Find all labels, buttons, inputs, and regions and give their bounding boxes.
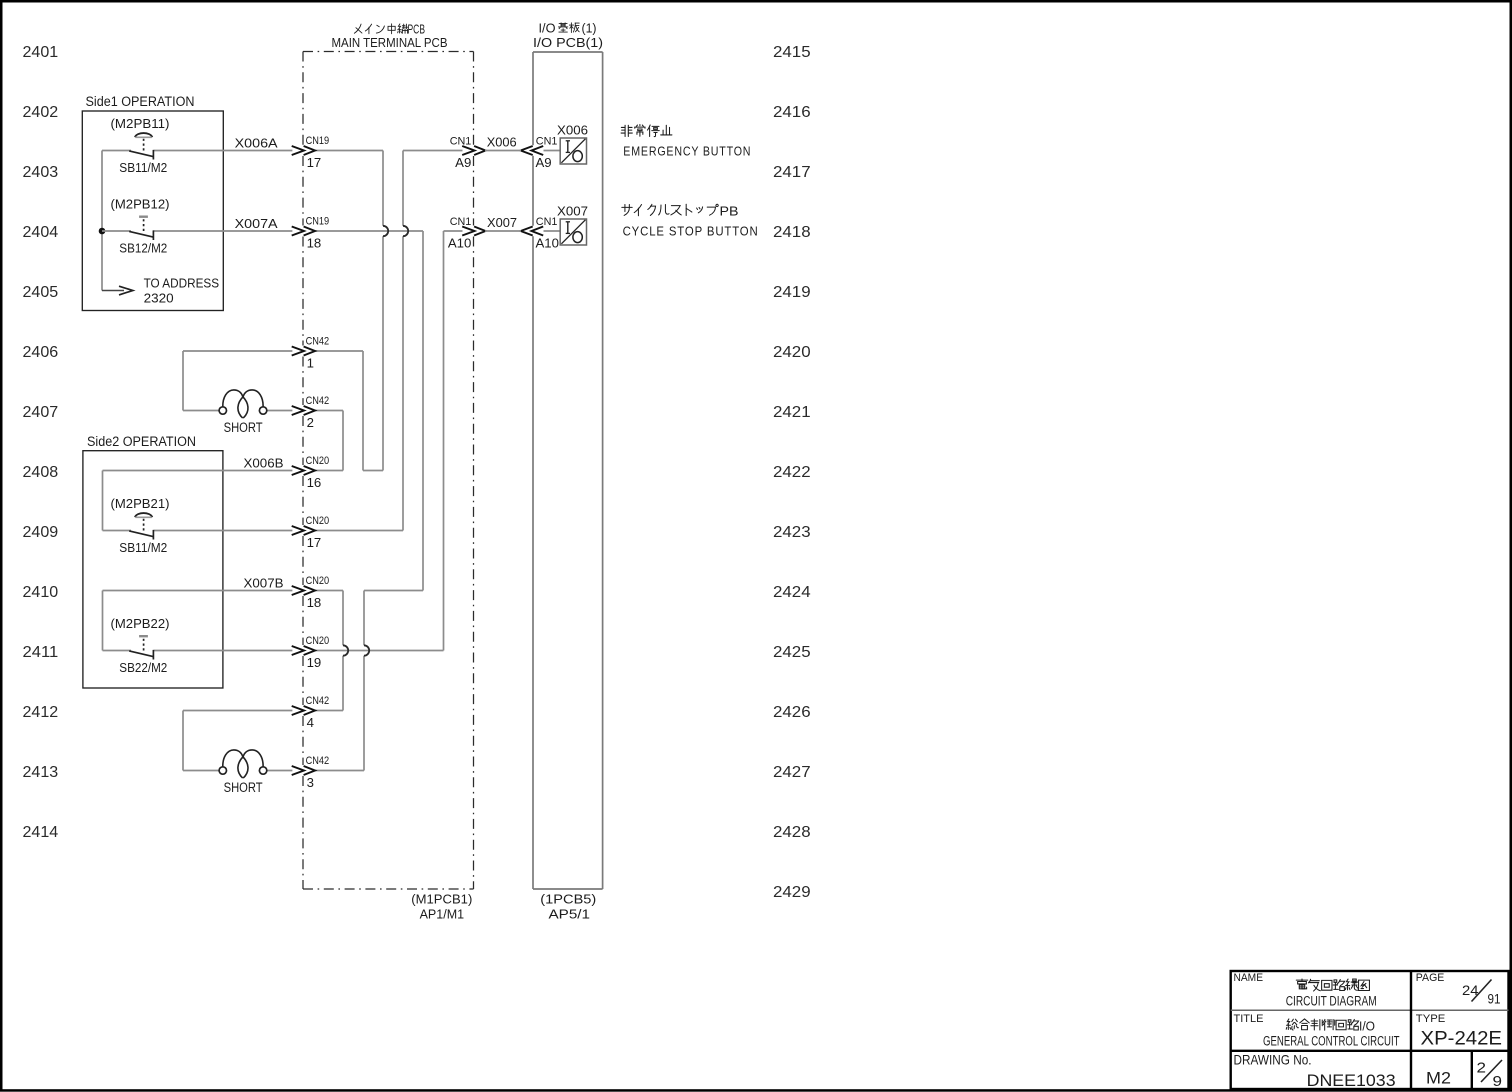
- svg-text:CN1: CN1: [450, 216, 472, 228]
- wire X007 between PCBs: [485, 230, 521, 232]
- svg-text:2: 2: [307, 415, 314, 430]
- svg-text:1: 1: [307, 355, 314, 370]
- svg-text:2420: 2420: [773, 344, 811, 361]
- svg-text:MAIN TERMINAL PCB: MAIN TERMINAL PCB: [332, 35, 448, 50]
- SHORT jumper: [219, 750, 267, 795]
- wire hop (no connection): [343, 645, 348, 655]
- svg-text:2412: 2412: [23, 704, 59, 721]
- wire Side2 upper vertical: [102, 471, 104, 531]
- wire Side2 lower vertical: [102, 591, 104, 651]
- svg-text:2418: 2418: [773, 224, 811, 241]
- svg-text:GENERAL CONTROL CIRCUIT: GENERAL CONTROL CIRCUIT: [1263, 1034, 1400, 1050]
- svg-text:PB: PB: [720, 205, 739, 219]
- svg-text:TYPE: TYPE: [1416, 1013, 1446, 1025]
- svg-text:18: 18: [307, 595, 322, 610]
- wire hop (no connection): [364, 645, 369, 655]
- svg-text:2401: 2401: [23, 44, 59, 61]
- I/O input symbol X007: [557, 203, 588, 245]
- wire X006 between PCBs: [485, 150, 521, 152]
- svg-text:DRAWING No.: DRAWING No.: [1234, 1053, 1312, 1068]
- connector CN1 pin A9: [521, 135, 558, 170]
- svg-text:CN20: CN20: [306, 635, 330, 647]
- I/O PCB(1) boundary box: [533, 52, 603, 889]
- svg-text:2426: 2426: [773, 704, 811, 721]
- svg-text:(1PCB5): (1PCB5): [540, 892, 596, 907]
- svg-text:CN19: CN19: [306, 135, 330, 147]
- svg-text:SB11/M2: SB11/M2: [119, 540, 167, 555]
- svg-text:XP-242E: XP-242E: [1421, 1027, 1503, 1049]
- connector CN42 pin 2: [292, 395, 330, 430]
- svg-text:X006B: X006B: [244, 455, 284, 470]
- svg-text:(M2PB12): (M2PB12): [111, 197, 170, 212]
- svg-text:I/O: I/O: [539, 21, 556, 36]
- svg-text:4: 4: [307, 715, 314, 730]
- svg-text:2425: 2425: [773, 644, 811, 661]
- connector CN20 pin 18: [292, 575, 330, 610]
- svg-text:19: 19: [307, 655, 322, 670]
- wire Side1 left vertical: [101, 151, 103, 291]
- wire SB11/M2 side2: [103, 530, 132, 532]
- label emergency button (Japanese): [621, 124, 672, 136]
- svg-text:X007A: X007A: [235, 216, 278, 231]
- svg-text:A10: A10: [448, 236, 471, 251]
- svg-text:2402: 2402: [23, 104, 59, 121]
- svg-text:2417: 2417: [773, 164, 811, 181]
- wire X006A: [102, 150, 131, 152]
- svg-text:SB12/M2: SB12/M2: [119, 241, 167, 256]
- svg-text:2320: 2320: [144, 291, 174, 306]
- title block PAGE cell: [1416, 972, 1501, 1006]
- connector CN1 pin A10: [521, 216, 559, 251]
- svg-text:X006A: X006A: [235, 136, 278, 151]
- svg-text:PAGE: PAGE: [1416, 972, 1445, 984]
- connector CN20 pin 19: [292, 635, 330, 670]
- svg-text:M2: M2: [1426, 1069, 1451, 1088]
- wire CN20-18 to CN42-4 route: [315, 591, 343, 711]
- svg-text:2406: 2406: [23, 344, 59, 361]
- push button SB11/M2 (M2PB11): [111, 116, 170, 175]
- svg-text:A9: A9: [455, 155, 471, 170]
- svg-text:CN19: CN19: [306, 216, 330, 228]
- connector CN20 pin 17: [292, 515, 330, 550]
- wire to X006 input: [544, 150, 561, 152]
- svg-text:2: 2: [1477, 1060, 1487, 1077]
- push button SB22/M2 (M2PB22): [111, 616, 170, 675]
- svg-text:(M2PB11): (M2PB11): [111, 116, 170, 131]
- wire X006B: [103, 470, 293, 472]
- svg-text:17: 17: [307, 535, 322, 550]
- svg-text:SB11/M2: SB11/M2: [119, 160, 167, 175]
- svg-text:EMERGENCY BUTTON: EMERGENCY BUTTON: [623, 143, 751, 158]
- svg-text:2427: 2427: [773, 764, 811, 781]
- label cycle stop PB (Japanese): [622, 204, 739, 218]
- svg-text:(M2PB22): (M2PB22): [111, 616, 170, 631]
- svg-text:2423: 2423: [773, 524, 811, 541]
- push button SB11/M2 (M2PB21): [111, 496, 170, 555]
- title block NAME cell: [1234, 972, 1377, 1009]
- wire X007B: [103, 590, 293, 592]
- title block table: [1231, 971, 1509, 1089]
- svg-text:3: 3: [307, 775, 314, 790]
- svg-text:2428: 2428: [773, 824, 811, 841]
- junction node: [99, 228, 106, 235]
- svg-text:(1): (1): [582, 21, 597, 36]
- push button SB12/M2 (M2PB12): [111, 197, 170, 256]
- title block TYPE cell: [1416, 1013, 1502, 1049]
- svg-text:TITLE: TITLE: [1234, 1013, 1264, 1025]
- svg-text:CN42: CN42: [306, 336, 330, 348]
- MAIN TERMINAL PCB boundary (dash-dot box): [303, 52, 474, 890]
- svg-text:2424: 2424: [773, 584, 811, 601]
- svg-text:DNEE1033: DNEE1033: [1307, 1071, 1396, 1090]
- connector CN19 pin 17: [292, 135, 330, 170]
- svg-text:2410: 2410: [23, 584, 59, 601]
- svg-text:CN1: CN1: [536, 135, 558, 147]
- svg-text:2408: 2408: [23, 464, 59, 481]
- svg-text:2414: 2414: [23, 824, 59, 841]
- title block TITLE cell: [1234, 1013, 1400, 1050]
- svg-text:X007: X007: [487, 215, 517, 230]
- wire CN20-19 to CN1-A10 route: [315, 231, 443, 651]
- wire CN42-2 to CN20-16 route: [315, 411, 343, 471]
- connector CN19 pin 18: [292, 216, 330, 251]
- Side1 OPERATION box: [82, 94, 223, 311]
- svg-text:2415: 2415: [773, 44, 811, 61]
- svg-text:TO ADDRESS: TO ADDRESS: [144, 275, 220, 290]
- svg-text:SB22/M2: SB22/M2: [119, 660, 167, 675]
- title block page 2/9 cell: [1477, 1060, 1503, 1090]
- svg-text:CN1: CN1: [536, 216, 558, 228]
- SHORT jumper: [219, 390, 267, 435]
- svg-text:2416: 2416: [773, 104, 811, 121]
- svg-text:2413: 2413: [23, 764, 59, 781]
- svg-text:X006: X006: [487, 134, 517, 149]
- wire X007A: [102, 230, 131, 232]
- svg-text:SHORT: SHORT: [224, 420, 263, 435]
- TO ADDRESS arrow: [102, 275, 219, 305]
- wire CN42-1 loop: [183, 351, 292, 411]
- svg-text:18: 18: [307, 235, 322, 250]
- svg-text:A9: A9: [536, 155, 552, 170]
- svg-text:(M1PCB1): (M1PCB1): [411, 892, 472, 907]
- I/O input symbol X006: [557, 122, 588, 164]
- svg-text:I/O: I/O: [1359, 1020, 1375, 1034]
- svg-text:I/O PCB(1): I/O PCB(1): [533, 35, 603, 50]
- connector CN20 pin 16: [292, 455, 330, 490]
- svg-text:NAME: NAME: [1234, 972, 1264, 984]
- svg-text:Side1 OPERATION: Side1 OPERATION: [86, 94, 195, 109]
- svg-text:X007: X007: [557, 203, 588, 218]
- svg-text:CN20: CN20: [306, 515, 330, 527]
- svg-text:Side2 OPERATION: Side2 OPERATION: [87, 434, 196, 449]
- wire CN20-17 to CN1-A9 route: [315, 151, 462, 531]
- wire to X007 input: [544, 230, 561, 232]
- svg-text:CN42: CN42: [306, 395, 330, 407]
- svg-text:CN20: CN20: [306, 575, 330, 587]
- svg-text:X006: X006: [557, 122, 588, 137]
- label I/O PCB(1): [533, 21, 603, 51]
- svg-text:CN42: CN42: [306, 755, 330, 767]
- svg-text:2429: 2429: [773, 884, 811, 901]
- wire hop (no connection): [403, 226, 408, 236]
- svg-text:17: 17: [307, 155, 322, 170]
- svg-text:AP1/M1: AP1/M1: [420, 907, 465, 922]
- svg-text:2419: 2419: [773, 284, 811, 301]
- svg-text:2421: 2421: [773, 404, 811, 421]
- connector CN42 pin 1: [292, 336, 330, 371]
- connector CN42 pin 3: [292, 755, 330, 790]
- svg-text:2403: 2403: [23, 164, 59, 181]
- svg-text:A10: A10: [536, 236, 559, 251]
- svg-text:16: 16: [307, 475, 322, 490]
- svg-text:9: 9: [1493, 1073, 1503, 1090]
- svg-text:CN1: CN1: [450, 136, 472, 148]
- svg-text:CN42: CN42: [306, 695, 330, 707]
- Side2 OPERATION box: [83, 434, 223, 688]
- svg-text:2404: 2404: [23, 224, 59, 241]
- svg-text:AP5/1: AP5/1: [549, 907, 591, 922]
- svg-text:2405: 2405: [23, 284, 59, 301]
- connector CN1 pin A10: [448, 216, 486, 250]
- svg-text:X007B: X007B: [244, 575, 284, 590]
- svg-text:CIRCUIT DIAGRAM: CIRCUIT DIAGRAM: [1286, 993, 1377, 1009]
- connector CN42 pin 4: [292, 695, 330, 730]
- wire X007A internal route: [315, 231, 462, 771]
- connector CN1 pin A9: [450, 136, 486, 170]
- svg-text:2409: 2409: [23, 524, 59, 541]
- svg-text:CN20: CN20: [306, 455, 330, 467]
- wire CN19-17 to CN42-1 route: [315, 151, 383, 471]
- wire CN42-4 loop: [183, 711, 292, 771]
- wire SB22/M2: [103, 650, 132, 652]
- svg-text:CYCLE STOP BUTTON: CYCLE STOP BUTTON: [623, 223, 759, 238]
- svg-text:2411: 2411: [23, 644, 59, 661]
- title block DRAWING No cell: [1234, 1053, 1396, 1091]
- wire hop (no connection): [383, 226, 388, 236]
- svg-text:2422: 2422: [773, 464, 811, 481]
- label (M1PCB1) AP1/M1: [411, 892, 472, 922]
- svg-text:(M2PB21): (M2PB21): [111, 496, 170, 511]
- svg-text:2407: 2407: [23, 404, 59, 421]
- svg-text:SHORT: SHORT: [224, 780, 263, 795]
- svg-text:91: 91: [1488, 992, 1501, 1007]
- label MAIN TERMINAL PCB: [332, 22, 448, 51]
- label (1PCB5) AP5/1: [540, 892, 596, 922]
